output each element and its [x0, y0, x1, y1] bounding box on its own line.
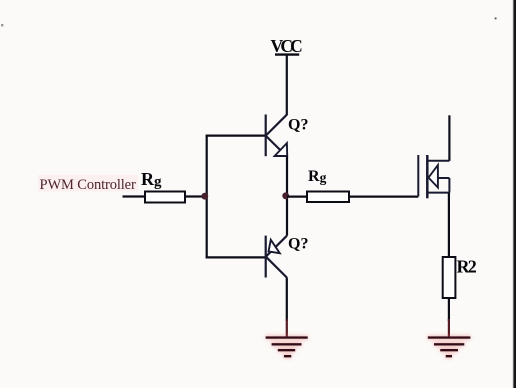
wire: Rg2 to MOSFET gate [349, 196, 418, 198]
wire: R2 to ground [448, 298, 450, 321]
node A (driver input junction) [201, 193, 208, 200]
wire: VCC to Q1 collector [286, 55, 288, 116]
wire: MOSFET source to R2 [448, 193, 450, 257]
resistor Rg2 [307, 192, 349, 203]
ground (right) [428, 338, 471, 357]
VCC power rail symbol [275, 53, 299, 55]
transistor Q1 (top NPN) [266, 115, 288, 157]
resistor Rg1 [145, 192, 185, 203]
svg-text:Q?: Q? [288, 117, 308, 134]
wire: MOSFET drain [448, 115, 450, 161]
wire: output node to Rg2 [287, 196, 307, 198]
transistor Q2 (bottom PNP) [266, 236, 287, 278]
svg-text:Rg: Rg [308, 168, 327, 185]
svg-text:R2: R2 [457, 257, 477, 277]
wire: Q1 emitter to Q2 emitter (output bus) [286, 156, 288, 236]
ground (left) [266, 338, 308, 357]
wire: left vertical bus (bases of Q1 and Q2) [206, 136, 208, 258]
svg-text:PWM Controller: PWM Controller [40, 177, 136, 193]
mosfet Q3 (N-channel) [418, 155, 449, 198]
svg-text:VCC: VCC [271, 36, 303, 56]
wire: base of Q1 (top horizontal) [206, 135, 266, 137]
svg-text:Q?: Q? [288, 236, 308, 253]
wire: PWM controller output to Rg1 [123, 195, 146, 197]
node B (driver output junction) [282, 192, 289, 199]
resistor R2 [443, 257, 456, 298]
wire: Rg1 to input node [185, 195, 207, 197]
wire: base of Q2 (bottom horizontal) [206, 256, 266, 258]
wire: Q2 collector to ground [286, 278, 288, 322]
